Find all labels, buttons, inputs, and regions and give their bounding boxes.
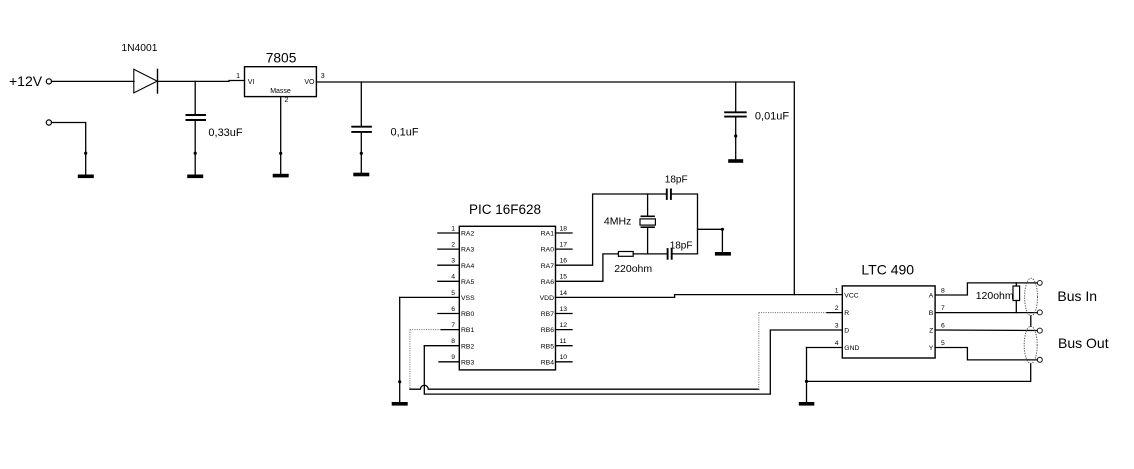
svg-text:VO: VO [304, 79, 315, 86]
svg-text:GND: GND [844, 345, 859, 352]
svg-text:2: 2 [285, 97, 289, 104]
svg-text:120ohm: 120ohm [976, 290, 1014, 302]
svg-text:RA5: RA5 [461, 279, 474, 286]
svg-text:4MHz: 4MHz [604, 216, 631, 228]
svg-text:RA4: RA4 [461, 263, 474, 270]
svg-text:4: 4 [451, 274, 455, 281]
svg-text:2: 2 [835, 305, 839, 312]
svg-text:220ohm: 220ohm [614, 263, 652, 275]
svg-text:3: 3 [835, 322, 839, 329]
svg-text:0,01uF: 0,01uF [755, 110, 790, 122]
svg-text:0,33uF: 0,33uF [208, 127, 243, 139]
svg-text:RA3: RA3 [461, 247, 474, 254]
svg-text:Bus Out: Bus Out [1058, 335, 1109, 351]
svg-text:RB2: RB2 [461, 343, 474, 350]
svg-text:RA6: RA6 [541, 279, 554, 286]
svg-text:R: R [844, 310, 849, 317]
svg-text:9: 9 [451, 354, 455, 361]
svg-text:Masse: Masse [270, 88, 291, 95]
svg-text:15: 15 [560, 274, 568, 281]
svg-text:0,1uF: 0,1uF [391, 127, 419, 139]
svg-text:Bus In: Bus In [1057, 288, 1097, 304]
svg-text:17: 17 [560, 242, 568, 249]
svg-text:5: 5 [451, 290, 455, 297]
svg-text:6: 6 [941, 322, 945, 329]
svg-text:RB5: RB5 [541, 343, 554, 350]
svg-text:1: 1 [451, 225, 455, 232]
svg-text:VDD: VDD [540, 295, 554, 302]
svg-text:+12V: +12V [9, 73, 43, 89]
svg-text:11: 11 [560, 338, 567, 345]
svg-text:6: 6 [451, 306, 455, 313]
svg-text:1: 1 [835, 287, 839, 294]
svg-text:RA0: RA0 [541, 247, 554, 254]
svg-text:3: 3 [451, 258, 455, 265]
svg-text:8: 8 [451, 338, 455, 345]
svg-text:VI: VI [248, 79, 255, 86]
svg-text:RB7: RB7 [541, 311, 554, 318]
svg-text:7: 7 [941, 305, 945, 312]
svg-text:RB4: RB4 [541, 359, 554, 366]
svg-text:7805: 7805 [266, 50, 297, 65]
svg-text:RB0: RB0 [461, 311, 474, 318]
svg-text:Z: Z [929, 328, 933, 335]
svg-text:RB1: RB1 [461, 327, 474, 334]
svg-text:14: 14 [560, 290, 568, 297]
svg-text:13: 13 [560, 306, 568, 313]
svg-text:12: 12 [560, 322, 568, 329]
svg-text:RA7: RA7 [541, 263, 554, 270]
svg-text:18: 18 [560, 225, 568, 232]
svg-text:PIC 16F628: PIC 16F628 [469, 202, 541, 217]
svg-text:VSS: VSS [461, 295, 475, 302]
svg-text:4: 4 [835, 340, 839, 347]
svg-text:5: 5 [941, 340, 945, 347]
svg-text:B: B [929, 310, 934, 317]
svg-text:VCC: VCC [844, 293, 858, 300]
svg-text:A: A [929, 293, 934, 300]
svg-text:10: 10 [560, 354, 568, 361]
svg-text:16: 16 [560, 258, 568, 265]
svg-text:D: D [844, 328, 849, 335]
svg-text:18pF: 18pF [670, 240, 693, 251]
svg-text:8: 8 [941, 287, 945, 294]
svg-text:3: 3 [321, 73, 325, 80]
svg-text:1N4001: 1N4001 [121, 43, 157, 54]
svg-text:LTC 490: LTC 490 [861, 262, 914, 278]
svg-text:2: 2 [451, 242, 455, 249]
svg-text:RB3: RB3 [461, 359, 474, 366]
svg-text:RA1: RA1 [541, 231, 554, 238]
svg-text:Y: Y [929, 345, 934, 352]
svg-text:7: 7 [451, 322, 455, 329]
svg-text:RB6: RB6 [541, 327, 554, 334]
svg-text:18pF: 18pF [665, 174, 688, 185]
svg-text:RA2: RA2 [461, 231, 474, 238]
svg-text:1: 1 [236, 73, 240, 80]
